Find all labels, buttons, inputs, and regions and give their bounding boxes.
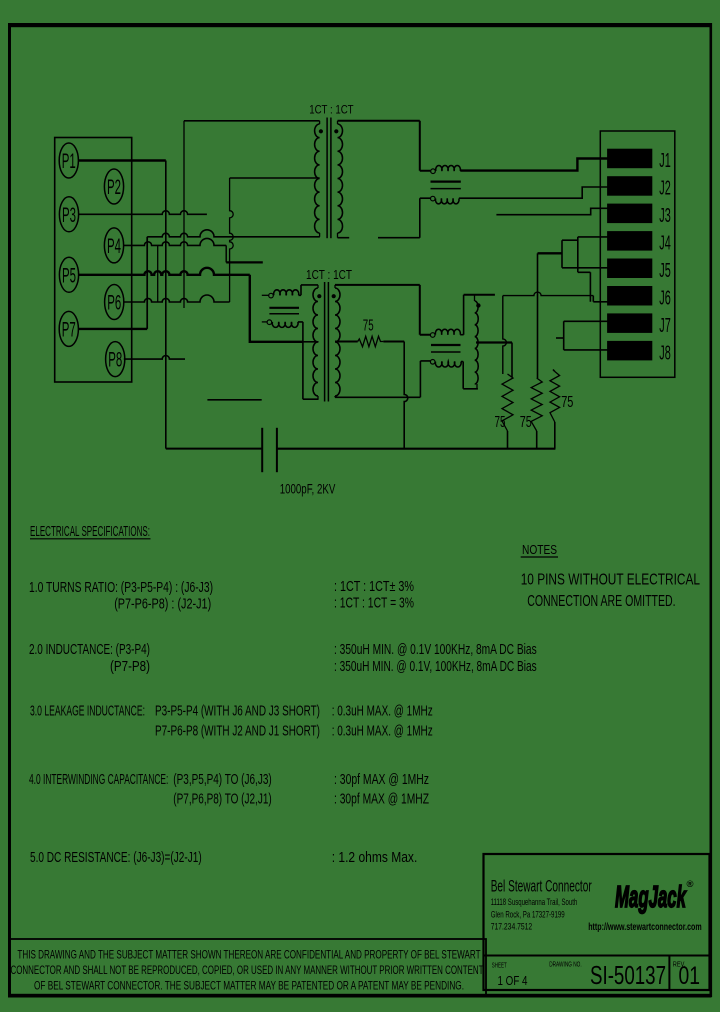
heading ELECTRICAL SPECIFICATIONS (30, 524, 151, 540)
wire P5 (78, 268, 249, 275)
choke L1 (431, 165, 461, 203)
label SHEET (492, 961, 507, 970)
title block frame (484, 854, 710, 990)
svg-text:J4: J4 (659, 233, 671, 255)
resistor R3 value (561, 394, 573, 411)
wire node B vertical (157, 245, 159, 302)
svg-text:(P7-P6-P8) : (J2-J1): (P7-P6-P8) : (J2-J1) (114, 597, 211, 613)
transformer T2 (306, 268, 352, 402)
revision 01 (679, 962, 701, 990)
pin J7 (607, 313, 671, 336)
svg-text:Bel Stewart Connector: Bel Stewart Connector (491, 878, 592, 896)
spec 5.0 dc resistance (30, 850, 417, 866)
spec 1.0 turns ratio (29, 579, 414, 613)
svg-text:J6: J6 (659, 287, 671, 309)
wire J5 (562, 267, 608, 269)
resistor R3 75ohm (550, 370, 560, 449)
svg-text:: 1CT : 1CT = 3%: : 1CT : 1CT = 3% (334, 596, 414, 612)
wire J4J5 node to R2 (537, 253, 539, 378)
company address (491, 897, 578, 932)
svg-text:75: 75 (561, 394, 573, 411)
svg-text:(P7,P6,P8) TO (J2,J1): (P7,P6,P8) TO (J2,J1) (173, 792, 271, 808)
spec 3.0 leakage (30, 704, 433, 740)
svg-text:1 OF 4: 1 OF 4 (498, 973, 528, 988)
svg-text:J8: J8 (659, 342, 671, 364)
svg-text:J3: J3 (659, 205, 671, 227)
resistor R2 75ohm (531, 378, 542, 449)
svg-text:P7-P6-P8 (WITH J2 AND J1 SHORT: P7-P6-P8 (WITH J2 AND J1 SHORT) (155, 724, 320, 740)
spec 4.0 interwinding (29, 772, 429, 808)
svg-text:J7: J7 (659, 315, 671, 337)
pin P1 (59, 143, 78, 178)
wire R3 stub (556, 337, 564, 339)
svg-text:(P3,P5,P4) TO (J6,J3): (P3,P5,P4) TO (J6,J3) (173, 772, 271, 788)
svg-text:717.234.7512: 717.234.7512 (491, 921, 533, 931)
wire J6 net (503, 292, 608, 302)
svg-text:: 1CT : 1CT± 3%: : 1CT : 1CT± 3% (334, 579, 414, 595)
pin P4 (104, 228, 123, 263)
svg-text:Glen Rock, Pa 17327-9199: Glen Rock, Pa 17327-9199 (491, 909, 565, 919)
svg-text:P3-P5-P4 (WITH J6 AND J3 SHORT: P3-P5-P4 (WITH J6 AND J3 SHORT) (155, 704, 320, 720)
label REV (673, 959, 686, 968)
pin J3 (607, 204, 671, 227)
svg-text:: 350uH MIN. @ 0.1V 100KHz, 8: : 350uH MIN. @ 0.1V 100KHz, 8mA DC Bias (334, 642, 537, 658)
svg-text:: 30pf MAX @ 1MHz: : 30pf MAX @ 1MHz (334, 772, 429, 788)
svg-text:P2: P2 (107, 176, 121, 199)
wire T1 secondary top to choke L1 (338, 121, 431, 171)
pin J6 (607, 286, 671, 309)
company name (491, 878, 592, 896)
choke L2 (262, 290, 299, 328)
svg-text:4.0 INTERWINDING CAPACITANCE:: 4.0 INTERWINDING CAPACITANCE: (29, 772, 168, 788)
svg-text:75: 75 (495, 414, 506, 431)
svg-text:SI-50137: SI-50137 (590, 960, 666, 990)
svg-text:P1: P1 (62, 150, 76, 173)
wire capacitor left (166, 448, 262, 450)
pin J2 (607, 176, 671, 199)
wire T1 primary bottom net (147, 230, 320, 237)
svg-text:75: 75 (520, 414, 532, 431)
wire P7 (78, 328, 147, 330)
pin P6 (105, 285, 124, 320)
svg-text:MagJack: MagJack (615, 879, 687, 914)
resistor R2 value (520, 414, 532, 431)
svg-text:75: 75 (363, 318, 374, 335)
svg-text:P3: P3 (62, 204, 76, 227)
wire P4 jog down (226, 245, 263, 262)
wire choke L1 bottom segment (378, 198, 430, 238)
wire J4 J5 node (538, 252, 563, 254)
svg-text:1.0 TURNS RATIO: (P3-P5-P4) :: 1.0 TURNS RATIO: (P3-P5-P4) : (J6-J3) (29, 580, 213, 596)
wire choke L2 to T2 primary top (299, 285, 318, 295)
wire J4 J5 loop (562, 240, 578, 268)
pin J4 (607, 231, 671, 254)
choke L3 (430, 329, 461, 367)
transformer T1 (309, 103, 354, 239)
note line 2 (527, 593, 675, 610)
pin P2 (104, 169, 123, 204)
connector P-side outline (55, 138, 132, 383)
svg-text:01: 01 (679, 962, 701, 990)
website url (588, 922, 702, 933)
pin P8 (106, 342, 125, 377)
wire T1 secondary bottom stub (338, 237, 350, 239)
wire P4 (124, 238, 227, 245)
svg-text:: 0.3uH MAX. @ 1MHz: : 0.3uH MAX. @ 1MHz (332, 704, 433, 720)
wire W1 tap (476, 343, 512, 378)
svg-text:DRAWING NO.: DRAWING NO. (549, 960, 582, 969)
svg-text:J1: J1 (659, 150, 671, 172)
wire P6 (124, 295, 230, 302)
pin J1 (607, 149, 671, 172)
disclaimer box (10, 939, 487, 996)
svg-text:P5: P5 (62, 264, 76, 287)
svg-text:2.0 INDUCTANCE: (P3-P4): 2.0 INDUCTANCE: (P3-P4) (29, 642, 150, 658)
spec 2.0 inductance (29, 642, 537, 675)
wire J7 J8 loop (564, 321, 608, 350)
label DRAWING NO (549, 960, 582, 969)
svg-text:: 0.3uH MAX. @ 1MHz: : 0.3uH MAX. @ 1MHz (332, 724, 433, 740)
svg-text:NOTES: NOTES (522, 543, 557, 557)
svg-text:J5: J5 (659, 260, 671, 282)
wire choke L2 bottom to T2 primary bottom (298, 322, 319, 399)
svg-text:®: ® (687, 879, 694, 890)
wire choke L3 top output (460, 295, 495, 335)
wire T1 center tap to P6 (230, 178, 320, 302)
svg-text:(P7-P8): (P7-P8) (110, 659, 150, 675)
svg-text:3.0 LEAKAGE INDUCTANCE:: 3.0 LEAKAGE INDUCTANCE: (30, 704, 145, 720)
svg-text:5.0 DC RESISTANCE: (J6-J3)=(J: 5.0 DC RESISTANCE: (J6-J3)=(J2-J1) (30, 850, 202, 866)
logo MagJack (615, 879, 694, 914)
svg-text:: 1.2 ohms Max.: : 1.2 ohms Max. (332, 850, 418, 866)
svg-text:CONNECTION ARE OMITTED.: CONNECTION ARE OMITTED. (527, 593, 675, 610)
wire bottom rail (277, 448, 556, 450)
wire J6 net to R1 (503, 296, 507, 374)
wire T1 primary top lead (184, 121, 320, 308)
svg-text:: 30pf MAX @ 1MHZ: : 30pf MAX @ 1MHZ (334, 792, 429, 808)
wire choke L3 bottom output (461, 362, 478, 389)
svg-text:P7: P7 (62, 319, 76, 342)
pin P7 (59, 311, 78, 346)
svg-text:10 PINS WITHOUT ELECTRICAL: 10 PINS WITHOUT ELECTRICAL (521, 572, 700, 589)
svg-text:CONNECTOR AND SHALL NOT BE REP: CONNECTOR AND SHALL NOT BE REPRODUCED, C… (11, 963, 484, 977)
wire T2 secondary bottom to choke L3 (335, 361, 430, 397)
svg-text:P6: P6 (107, 292, 121, 315)
note line 1 (521, 572, 700, 589)
svg-text:THIS DRAWING AND THE SUBJECT M: THIS DRAWING AND THE SUBJECT MATTER SHOW… (17, 948, 480, 962)
winding W1 (475, 295, 481, 389)
svg-text:1CT : 1CT: 1CT : 1CT (309, 103, 354, 117)
sheet number (498, 973, 528, 988)
drawing number SI-50137 (590, 960, 666, 990)
capacitor C1 value label (280, 481, 336, 497)
svg-text:P4: P4 (107, 235, 121, 258)
wire P7 vertical (146, 237, 148, 329)
heading NOTES (521, 543, 558, 557)
svg-text:11118 Susquehanna Trail, South: 11118 Susquehanna Trail, South (491, 897, 578, 907)
wire P1 to node A (78, 159, 165, 162)
pin P3 (59, 197, 78, 232)
capacitor C1 (262, 428, 277, 472)
svg-text:J2: J2 (659, 178, 671, 200)
pin J8 (607, 341, 671, 364)
wire P3 (79, 211, 207, 215)
resistor R1 75ohm (502, 374, 513, 449)
disclaimer text (11, 948, 484, 993)
svg-text:ELECTRICAL SPECIFICATIONS:: ELECTRICAL SPECIFICATIONS: (30, 524, 150, 540)
wire P8 (124, 356, 185, 360)
connector J-side outline (600, 131, 675, 377)
svg-text:OF BEL STEWART CONNECTOR. THE: OF BEL STEWART CONNECTOR. THE SUBJECT MA… (34, 979, 464, 993)
wire J3 (496, 208, 607, 214)
wire R4 to bottom rail (383, 342, 407, 449)
wire P5 corner to T2 tap (250, 275, 319, 342)
wire T2 secondary top to choke L3 (335, 285, 430, 335)
svg-text:: 350uH MIN. @ 0.1V, 100KHz,: : 350uH MIN. @ 0.1V, 100KHz, 8mA DC Bias (334, 659, 537, 675)
resistor R1 value (495, 414, 506, 431)
wire J4 (578, 237, 608, 302)
wire node A vertical (165, 161, 167, 449)
svg-text:SHEET: SHEET (492, 961, 507, 970)
svg-text:1CT : 1CT: 1CT : 1CT (306, 268, 352, 282)
wire J1 (460, 159, 607, 171)
svg-text:P8: P8 (108, 349, 122, 372)
wire J2 (459, 187, 608, 198)
svg-text:http://www.stewartconnector.co: http://www.stewartconnector.com (588, 922, 702, 933)
wire dangling node (207, 399, 261, 401)
pin J5 (607, 259, 671, 282)
svg-text:1000pF, 2KV: 1000pF, 2KV (280, 481, 336, 497)
pin P5 (59, 257, 78, 292)
resistor R4 75ohm (335, 318, 383, 347)
